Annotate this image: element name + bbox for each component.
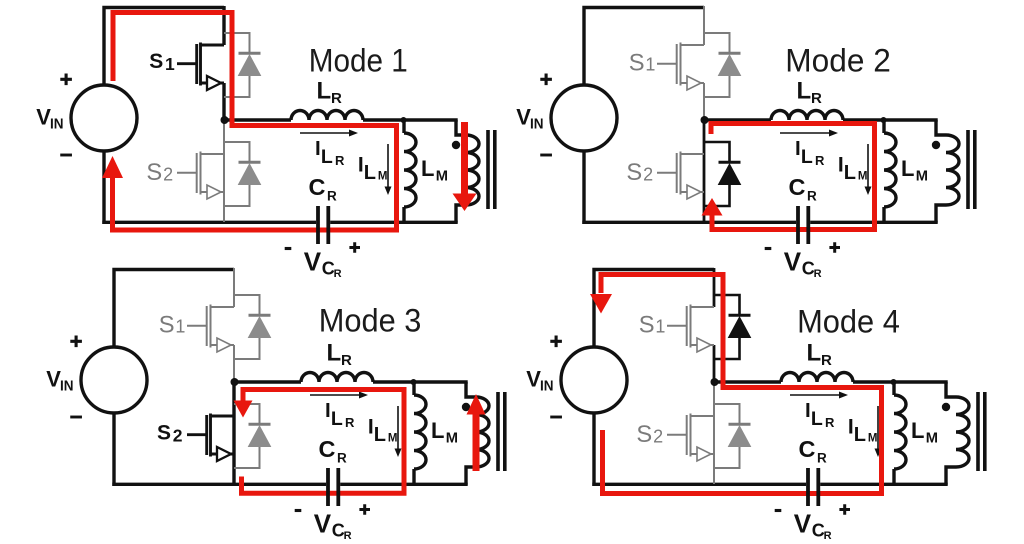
wire VIN minus lead (Mode 2) (582, 151, 585, 224)
svg-text:L: L (431, 418, 444, 443)
voltage source VIN (Mode 2) (551, 85, 617, 151)
plus terminal of VIN (Mode 1) (60, 74, 72, 86)
body diode of S1 (Mode 1) (224, 33, 261, 97)
svg-text:L: L (811, 408, 823, 430)
current arrow into S2 (Mode 3) (234, 401, 253, 418)
wire node to middle rail (Mode 4) (715, 380, 781, 383)
wire LM top lead (Mode 4) (892, 382, 895, 395)
svg-text:M: M (916, 168, 928, 184)
svg-text:2: 2 (163, 164, 173, 184)
svg-text:L: L (421, 156, 434, 181)
inductor LM (Mode 3) (414, 395, 426, 469)
wire S1 source to node (Mode 4) (713, 345, 716, 383)
svg-text:L: L (854, 424, 866, 446)
wire LM top lead (Mode 2) (882, 120, 885, 133)
voltage source VIN (Mode 1) (71, 85, 137, 151)
inductor LM (Mode 4) (894, 395, 906, 469)
wire LR to LM junction (Mode 3) (373, 380, 468, 383)
wire bottom rail right (Mode 1) (330, 221, 458, 224)
node S1-S2 midpoint (Mode 1) (221, 116, 229, 124)
svg-text:I: I (805, 399, 811, 422)
wire bottom rail right (Mode 2) (810, 221, 938, 224)
inductor LR (Mode 1) (291, 111, 363, 120)
svg-text:V: V (304, 246, 322, 276)
svg-text:V: V (784, 246, 802, 276)
svg-text:V: V (516, 105, 531, 130)
svg-text:R: R (821, 352, 832, 369)
svg-text:R: R (341, 352, 352, 369)
wire top rail (Mode 4) (594, 270, 714, 349)
minus terminal of VIN (Mode 2) (540, 154, 552, 157)
current arrow into VIN- (Mode 1) (102, 156, 123, 178)
capacitor CR (Mode 1) (316, 206, 320, 244)
wire bottom rail right (Mode 3) (340, 483, 468, 486)
node S1-S2 midpoint (Mode 2) (701, 116, 709, 124)
svg-text:M: M (436, 168, 448, 184)
svg-text:2: 2 (643, 164, 653, 184)
current arrow ILM (Mode 1) (385, 144, 392, 195)
current path red loop (Mode 4) (601, 275, 882, 494)
svg-text:L: L (801, 146, 813, 168)
wire bottom rail left (Mode 1) (102, 221, 316, 224)
wire top rail (Mode 2) (584, 8, 704, 87)
inductor LR (Mode 2) (771, 111, 843, 120)
svg-text:L: L (331, 408, 343, 430)
wire S2 drain/source vertical (Mode 3) (232, 382, 235, 484)
wire S1 source to node (Mode 1) (222, 83, 225, 121)
svg-text:IN: IN (50, 117, 64, 133)
svg-text:M: M (446, 430, 458, 446)
transformer primary winding (Mode 2) (946, 135, 959, 205)
wire VIN minus lead (Mode 3) (112, 413, 115, 486)
wire junction to primary (Mode 4) (946, 382, 956, 397)
wire LR to LM junction (Mode 2) (843, 118, 938, 121)
current path red loop (Mode 2) (711, 124, 875, 230)
svg-text:S: S (149, 50, 163, 73)
minus sign of VCR (Mode 2) (765, 247, 772, 250)
wire bottom rail left (Mode 2) (582, 221, 796, 224)
body diode of S1 (Mode 4) (714, 295, 751, 359)
svg-text:R: R (327, 189, 337, 204)
node S1-S2 midpoint (Mode 3) (231, 378, 239, 386)
svg-text:R: R (345, 415, 355, 430)
current arrow transformer primary (Mode 1) (461, 122, 468, 196)
svg-text:S: S (629, 50, 645, 76)
svg-text:C: C (309, 174, 326, 200)
current arrow ILR (Mode 4) (790, 392, 848, 399)
svg-text:Mode 1: Mode 1 (309, 43, 408, 79)
svg-text:M: M (388, 433, 398, 445)
capacitor CR (Mode 2) (796, 206, 800, 244)
svg-text:R: R (331, 90, 342, 107)
plus sign of VCR (Mode 2) (829, 242, 840, 253)
voltage source VIN (Mode 3) (81, 347, 147, 413)
plus sign of VCR (Mode 1) (349, 242, 360, 253)
svg-text:1: 1 (165, 54, 175, 74)
transistor S1 (Mode 1) (177, 43, 224, 91)
wire S2 drain/source vertical (Mode 1) (223, 120, 225, 222)
wire node to middle rail (Mode 1) (225, 118, 291, 121)
body diode of S2 (Mode 1) (224, 142, 261, 206)
svg-text:L: L (317, 78, 332, 105)
wire LM bottom lead (Mode 3) (412, 469, 415, 484)
transformer core (Mode 4) (976, 392, 980, 471)
wire top rail (Mode 3) (114, 270, 234, 349)
inductor LR (Mode 3) (301, 373, 373, 383)
svg-text:M: M (378, 171, 388, 183)
svg-text:L: L (901, 156, 914, 181)
wire LM top lead (Mode 1) (402, 120, 405, 133)
svg-text:Mode 3: Mode 3 (319, 303, 422, 339)
svg-text:C: C (319, 436, 336, 462)
svg-text:S: S (639, 312, 655, 338)
svg-text:R: R (815, 153, 825, 168)
current arrow ILR (Mode 1) (300, 130, 358, 137)
svg-text:V: V (526, 367, 541, 392)
svg-text:C: C (799, 436, 816, 462)
current arrow ILM (Mode 4) (875, 406, 882, 457)
voltage source VIN (Mode 4) (561, 347, 627, 413)
svg-text:R: R (825, 415, 835, 430)
wire bottom rail left (Mode 3) (112, 483, 326, 486)
node LM junction (Mode 4) (891, 379, 897, 385)
plus terminal of VIN (Mode 4) (550, 336, 562, 348)
phase dot (Mode 3) (462, 403, 470, 411)
svg-text:L: L (844, 162, 856, 184)
wire top rail (Mode 1) (104, 8, 224, 87)
inductor LM (Mode 1) (404, 133, 416, 207)
current arrow ILM (Mode 3) (395, 406, 402, 457)
svg-text:R: R (337, 451, 347, 466)
transformer core (Mode 2) (966, 130, 970, 209)
plus terminal of VIN (Mode 3) (70, 336, 82, 348)
body diode of S2 (Mode 4) (714, 404, 751, 468)
minus sign of VCR (Mode 1) (285, 247, 292, 250)
phase dot (Mode 4) (942, 403, 950, 411)
svg-text:S: S (636, 422, 652, 448)
wire primary bottom lead (Mode 4) (946, 467, 956, 485)
svg-text:L: L (374, 424, 386, 446)
body diode of S1 (Mode 2) (704, 33, 741, 97)
svg-text:V: V (794, 508, 812, 538)
wire junction to primary (Mode 2) (936, 120, 946, 135)
wire LM bottom lead (Mode 2) (882, 207, 885, 222)
wire bottom rail left (Mode 4) (592, 483, 806, 486)
capacitor CR (Mode 3) (326, 468, 330, 506)
transistor S1 (Mode 3) (187, 305, 234, 353)
wire S2 drain/source vertical (Mode 2) (703, 120, 706, 222)
plus sign of VCR (Mode 4) (839, 504, 850, 515)
wire bottom rail right (Mode 4) (820, 483, 948, 486)
current arrow into VIN+ (Mode 4) (590, 294, 612, 314)
wire S1 drain vertical (Mode 2) (703, 6, 705, 45)
svg-text:L: L (911, 418, 924, 443)
node LM junction (Mode 3) (411, 379, 417, 385)
minus terminal of VIN (Mode 4) (550, 416, 562, 419)
wire S1 drain vertical (Mode 3) (233, 268, 235, 307)
transformer core (Mode 3) (496, 392, 500, 471)
node LM junction (Mode 1) (401, 117, 407, 123)
wire primary bottom lead (Mode 3) (466, 467, 476, 485)
minus sign of VCR (Mode 4) (775, 509, 782, 512)
capacitor CR (Mode 4) (806, 468, 810, 506)
svg-text:S: S (159, 312, 175, 338)
svg-text:L: L (327, 340, 342, 367)
minus terminal of VIN (Mode 1) (60, 154, 72, 157)
svg-text:L: L (321, 146, 333, 168)
wire LR to LM junction (Mode 1) (363, 118, 458, 121)
node S1-S2 midpoint (Mode 4) (711, 378, 719, 386)
current path red loop (Mode 3) (242, 390, 405, 494)
svg-text:1: 1 (655, 317, 665, 337)
plus terminal of VIN (Mode 2) (540, 74, 552, 86)
transformer primary winding (Mode 1) (466, 135, 479, 205)
transistor S1 (Mode 2) (657, 43, 704, 91)
svg-text:I: I (325, 399, 331, 422)
current arrow ILR (Mode 3) (310, 392, 368, 399)
current arrow through S2 diode (Mode 2) (702, 198, 723, 216)
svg-text:C: C (789, 174, 806, 200)
minus terminal of VIN (Mode 3) (70, 416, 82, 419)
wire LM bottom lead (Mode 1) (402, 207, 405, 222)
wire LR to LM junction (Mode 4) (853, 380, 948, 383)
transistor S2 (Mode 2) (657, 152, 704, 200)
svg-text:S: S (626, 160, 642, 186)
svg-text:M: M (858, 171, 868, 183)
wire S1 drain vertical (Mode 4) (713, 268, 716, 307)
transformer core (Mode 1) (486, 130, 490, 209)
wire S1 source to node (Mode 2) (703, 83, 705, 121)
inductor LR (Mode 4) (781, 373, 853, 383)
svg-text:2: 2 (173, 426, 183, 446)
svg-text:IN: IN (530, 117, 544, 133)
body diode of S2 (Mode 2) (704, 142, 741, 206)
svg-text:1: 1 (645, 55, 655, 75)
svg-text:R: R (807, 189, 817, 204)
current path red loop (Mode 1) (113, 13, 397, 231)
svg-text:R: R (814, 268, 822, 280)
svg-text:V: V (314, 508, 332, 538)
phase dot (Mode 2) (932, 141, 940, 149)
svg-text:R: R (344, 530, 352, 542)
svg-text:M: M (926, 430, 938, 446)
inductor LM (Mode 2) (884, 133, 896, 207)
body diode of S1 (Mode 3) (234, 295, 271, 359)
svg-text:Mode 4: Mode 4 (797, 303, 900, 339)
current arrow ILM (Mode 2) (865, 144, 872, 195)
wire junction to primary (Mode 3) (466, 382, 476, 397)
transformer primary winding (Mode 4) (956, 397, 969, 467)
wire S1 drain vertical (Mode 1) (222, 6, 225, 45)
svg-text:R: R (335, 153, 345, 168)
transistor S2 (Mode 1) (177, 152, 224, 200)
wire LM bottom lead (Mode 4) (892, 469, 895, 484)
node LM junction (Mode 2) (881, 117, 887, 123)
svg-text:L: L (797, 78, 812, 105)
svg-text:S: S (146, 160, 162, 186)
wire node to middle rail (Mode 2) (705, 118, 771, 121)
transformer primary winding (Mode 3) (476, 397, 489, 467)
transistor S1 (Mode 4) (667, 305, 714, 353)
minus sign of VCR (Mode 3) (295, 509, 302, 512)
plus sign of VCR (Mode 3) (359, 504, 370, 515)
current arrow ILR (Mode 2) (780, 130, 838, 137)
svg-text:IN: IN (540, 379, 554, 395)
svg-text:L: L (364, 162, 376, 184)
svg-text:Mode 2: Mode 2 (785, 43, 891, 79)
svg-text:IN: IN (60, 379, 74, 395)
wire S2 drain/source vertical (Mode 4) (713, 382, 715, 484)
transistor S2 (Mode 3) (187, 414, 234, 462)
wire S1 source to node (Mode 3) (233, 345, 235, 383)
svg-text:I: I (795, 137, 801, 160)
svg-text:R: R (824, 530, 832, 542)
wire primary bottom lead (Mode 1) (456, 205, 466, 223)
wire VIN minus lead (Mode 1) (102, 151, 105, 224)
svg-text:I: I (315, 137, 321, 160)
svg-text:L: L (807, 340, 822, 367)
svg-text:R: R (811, 90, 822, 107)
wire node to middle rail (Mode 3) (235, 380, 301, 383)
svg-text:V: V (46, 367, 61, 392)
transistor S2 (Mode 4) (667, 414, 714, 462)
svg-text:S: S (157, 421, 171, 444)
svg-text:M: M (868, 433, 878, 445)
phase dot (Mode 1) (452, 141, 460, 149)
wire VIN minus lead (Mode 4) (592, 413, 595, 486)
wire LM top lead (Mode 3) (412, 382, 415, 395)
svg-text:2: 2 (653, 426, 663, 446)
wire primary bottom lead (Mode 2) (936, 205, 946, 223)
svg-text:R: R (334, 268, 342, 280)
current arrow transformer primary (Mode 3) (473, 414, 480, 471)
svg-text:V: V (36, 105, 51, 130)
body diode of S2 (Mode 3) (234, 404, 271, 468)
wire junction to primary (Mode 1) (456, 120, 466, 135)
svg-text:1: 1 (175, 317, 185, 337)
svg-text:R: R (817, 451, 827, 466)
